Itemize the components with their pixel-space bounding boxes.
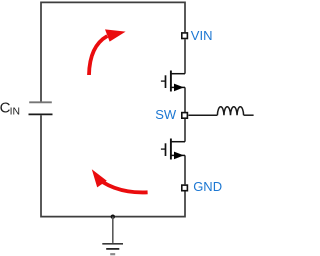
svg-text:IN: IN (10, 106, 20, 117)
svg-text:GND: GND (193, 179, 222, 194)
svg-text:SW: SW (155, 107, 177, 122)
svg-text:VIN: VIN (191, 28, 213, 43)
